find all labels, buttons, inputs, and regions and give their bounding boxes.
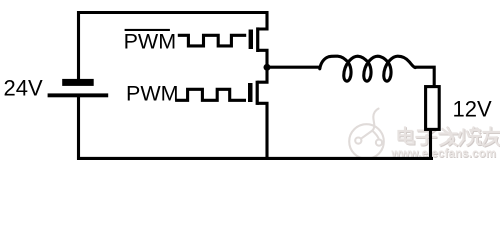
node SW junction dot xyxy=(264,64,271,71)
transistor Q1 drain lead xyxy=(258,11,267,29)
transistor Q2 drain lead xyxy=(257,67,267,82)
watermark logo circle xyxy=(349,109,384,159)
transistor Q2 (low side MOSFET) gate bar xyxy=(248,83,253,102)
transistor Q2 source lead xyxy=(257,103,267,160)
svg-text:PWM: PWM xyxy=(126,82,179,106)
waveform lower (PWM) xyxy=(175,89,246,100)
svg-text:24V: 24V xyxy=(4,75,43,100)
transistor Q1 channel xyxy=(256,27,259,52)
wire: top rail xyxy=(77,11,269,14)
battery B1 24V xyxy=(48,79,109,97)
resistor R1 (12V load) xyxy=(426,87,440,130)
transistor Q1 (high side MOSFET) gate bar xyxy=(249,30,253,50)
wire: junction to inductor xyxy=(267,66,321,69)
svg-text:12V: 12V xyxy=(453,96,492,121)
wire: left rail upper xyxy=(77,11,80,80)
wire: left rail lower xyxy=(77,96,80,160)
transistor Q2 channel xyxy=(256,81,259,105)
svg-text:PWM: PWM xyxy=(124,29,177,53)
wire: bottom rail xyxy=(77,157,433,160)
inductor L1 xyxy=(320,56,416,81)
label PWM-bar (overline) xyxy=(125,29,170,31)
wire: resistor to bottom rail xyxy=(429,129,432,160)
wire: inductor to load xyxy=(415,67,435,87)
watermark text 电子发烧友 (approximated strokes) xyxy=(399,128,500,147)
transistor Q1 source lead xyxy=(258,50,267,67)
waveform upper (inverted PWM) xyxy=(178,35,246,46)
